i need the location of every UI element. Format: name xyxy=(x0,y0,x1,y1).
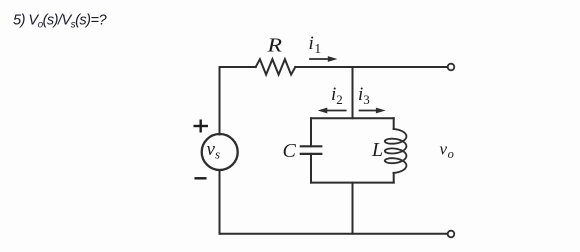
svg-text:i3: i3 xyxy=(358,84,370,107)
wire: source bottom to bottom rail xyxy=(219,170,221,234)
capacitor C (left branch with plates) xyxy=(301,118,322,182)
terminal: bottom-right output xyxy=(448,231,455,238)
svg-text:C: C xyxy=(283,140,297,162)
wire: tank bottom rail xyxy=(311,182,394,184)
svg-text:5) Vo(s)/Vs(s)=?: 5) Vo(s)/Vs(s)=? xyxy=(13,13,107,31)
svg-text:vo: vo xyxy=(440,140,454,162)
inductor L (right branch coil) xyxy=(385,118,407,182)
wire: tank bottom to bottom rail xyxy=(352,183,354,234)
svg-text:i2: i2 xyxy=(331,84,343,107)
svg-text:L: L xyxy=(371,139,383,161)
svg-text:i1: i1 xyxy=(309,33,322,56)
terminal: top-right output xyxy=(448,64,455,71)
wire: resistor to top-right output terminal xyxy=(295,66,447,68)
polarity - of source xyxy=(195,177,207,179)
wire: bottom rail to bottom-right terminal xyxy=(220,233,448,235)
resistor R (zigzag) xyxy=(256,59,296,74)
arrow: current i1 xyxy=(310,56,338,62)
voltage source Vs (circle) xyxy=(202,134,238,170)
node: junction of top wire and tank branch xyxy=(352,67,354,118)
wire: tank top rail xyxy=(311,117,394,119)
arrow: current i3 xyxy=(360,108,386,114)
polarity + of source xyxy=(194,120,209,133)
svg-text:vs: vs xyxy=(207,139,221,162)
svg-text:R: R xyxy=(266,35,282,57)
arrow: current i2 xyxy=(318,108,346,114)
wire: top-left from source top up and right to resistor xyxy=(220,67,256,135)
